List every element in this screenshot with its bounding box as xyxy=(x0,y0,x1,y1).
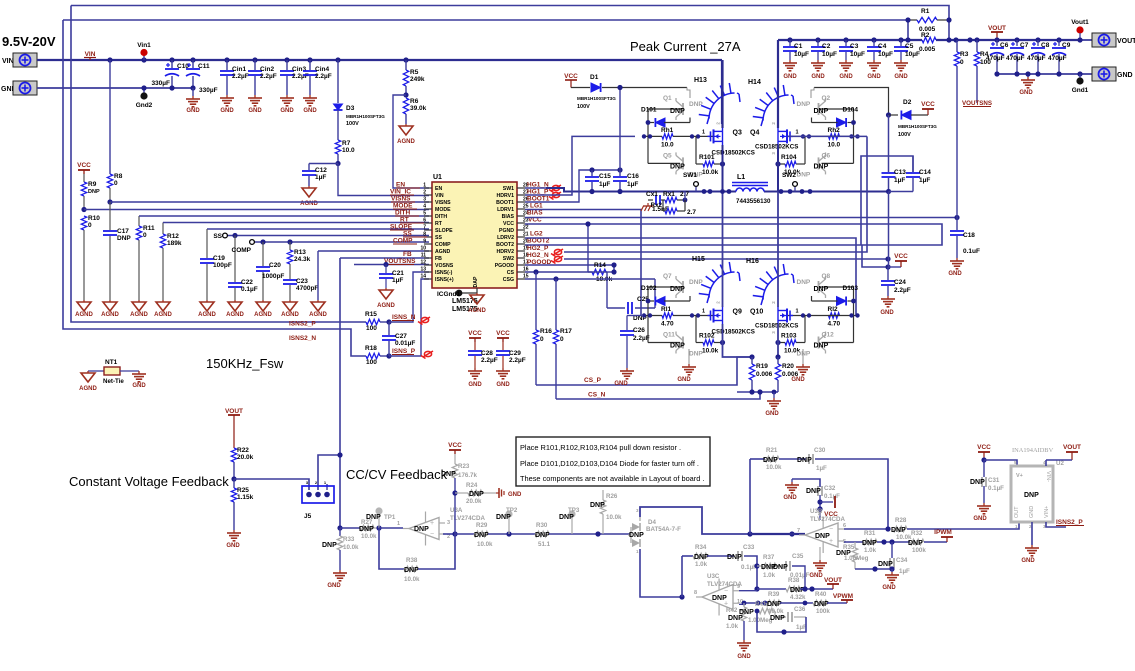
resistor Rh1 10.0 xyxy=(661,127,674,149)
resistor Rx2 2.7 xyxy=(651,200,697,216)
junction xyxy=(872,566,877,571)
svg-text:1: 1 xyxy=(702,309,705,315)
junction xyxy=(452,490,457,495)
svg-text:HDRV2: HDRV2 xyxy=(497,249,515,255)
svg-text:C5: C5 xyxy=(905,43,914,50)
wire to VOUT terminal xyxy=(1080,39,1092,41)
svg-text:FB: FB xyxy=(435,256,442,262)
op-amp U1 LM5175 IC body xyxy=(432,182,517,288)
wire output rail left of R2 xyxy=(778,39,922,41)
svg-text:R103: R103 xyxy=(781,333,797,340)
probe ISNS_N xyxy=(421,317,428,322)
wire VOUT to INA VIN- xyxy=(1046,459,1072,461)
svg-text:1: 1 xyxy=(795,129,798,135)
wire SW1 stub xyxy=(525,187,546,189)
junction xyxy=(337,452,342,457)
AGND at NT1 xyxy=(79,371,97,392)
resistor R28 DNP 10.0k xyxy=(891,517,912,541)
resistor R103 10.0k xyxy=(778,333,805,355)
svg-text:DNP: DNP xyxy=(970,479,985,486)
svg-text:OUT: OUT xyxy=(1014,506,1020,518)
capacitor C30 DNP 1uF xyxy=(797,447,827,472)
junction xyxy=(789,531,794,536)
svg-text:C6: C6 xyxy=(1000,42,1009,49)
wire U3B noninv to R31 xyxy=(844,541,863,543)
svg-text:GND: GND xyxy=(882,585,896,591)
net label SLOPE xyxy=(390,224,414,231)
wire R104 vertical xyxy=(804,136,806,164)
svg-text:BAT54A-7-F: BAT54A-7-F xyxy=(646,526,681,533)
svg-text:13: 13 xyxy=(420,267,426,273)
svg-text:BIAS: BIAS xyxy=(527,210,543,217)
svg-text:DNP: DNP xyxy=(117,235,131,242)
svg-text:Q5: Q5 xyxy=(663,152,672,159)
resistor R26 DNP vertical xyxy=(590,490,622,534)
svg-text:0: 0 xyxy=(114,180,118,187)
wire VIN rail xyxy=(37,59,722,61)
wire R1 left drop xyxy=(907,20,909,40)
wire ISNS2_P sense bus top xyxy=(63,19,908,21)
transistor Q4 CSD18502KCS xyxy=(750,122,798,155)
wire BOOT2 to C14 top xyxy=(525,156,913,245)
junction xyxy=(905,37,910,42)
svg-text:10.0k: 10.0k xyxy=(766,464,782,471)
svg-text:CS: CS xyxy=(507,270,515,276)
ground below C34 xyxy=(882,569,899,591)
svg-text:MBR1H100SFT3G: MBR1H100SFT3G xyxy=(577,96,616,101)
svg-text:L1: L1 xyxy=(737,174,745,181)
svg-text:Q4: Q4 xyxy=(750,129,759,136)
svg-text:J5: J5 xyxy=(304,513,312,520)
svg-text:H13: H13 xyxy=(694,77,707,84)
capacitor C16 1uF xyxy=(613,170,639,192)
ground at C32 xyxy=(783,479,799,501)
capacitor C9 470uF xyxy=(1048,40,1071,74)
svg-text:EN: EN xyxy=(435,186,442,192)
capacitor C34 DNP 1uF xyxy=(878,542,910,575)
svg-text:U3A: U3A xyxy=(450,507,463,514)
svg-text:TP3: TP3 xyxy=(568,507,580,514)
junction xyxy=(788,189,793,194)
capacitor Cin1 2.2uF xyxy=(220,60,249,95)
junction xyxy=(403,92,408,97)
svg-text:C17: C17 xyxy=(117,228,129,235)
junction xyxy=(754,563,759,568)
svg-text:10: 10 xyxy=(420,246,426,252)
svg-text:470µF: 470µF xyxy=(1027,55,1046,62)
ground below C31 xyxy=(973,503,991,522)
svg-text:1.0k: 1.0k xyxy=(695,561,708,568)
junction xyxy=(946,17,951,22)
svg-text:CS_P: CS_P xyxy=(584,377,602,384)
svg-text:DNP: DNP xyxy=(797,457,812,464)
power flag VCC at R9 xyxy=(78,169,90,171)
resistor R20 0.006 xyxy=(775,357,798,392)
svg-text:−: − xyxy=(829,526,833,533)
wire Q1 base row xyxy=(648,108,683,110)
svg-text:0.006: 0.006 xyxy=(756,371,773,378)
svg-text:R31: R31 xyxy=(864,530,876,537)
junction xyxy=(889,566,894,571)
svg-text:ISNS2_P: ISNS2_P xyxy=(289,321,316,328)
svg-text:Rl1: Rl1 xyxy=(661,306,672,313)
wire Q11 base row xyxy=(648,342,680,344)
svg-text:R25: R25 xyxy=(237,487,249,494)
svg-text:GND: GND xyxy=(783,74,797,80)
svg-text:NT1: NT1 xyxy=(105,359,118,366)
wire SW2 to Q10 drain xyxy=(777,192,779,308)
AGND symbol x=318 xyxy=(309,300,327,318)
wire R40 to VPWM xyxy=(827,602,847,604)
wire Q12 base row xyxy=(822,342,854,344)
svg-text:VOUTSNS: VOUTSNS xyxy=(384,258,416,265)
resistor R27 DNP xyxy=(359,519,379,540)
svg-text:Cx1: Cx1 xyxy=(646,191,658,198)
junction xyxy=(403,57,408,62)
svg-text:AGND: AGND xyxy=(281,312,299,318)
svg-text:DNP: DNP xyxy=(689,101,703,108)
svg-text:R11: R11 xyxy=(143,225,155,232)
junction xyxy=(452,531,457,536)
svg-text:PGND: PGND xyxy=(499,228,514,234)
svg-text:2.7: 2.7 xyxy=(687,209,696,216)
wire feedback loop right xyxy=(418,534,455,569)
svg-text:R13: R13 xyxy=(294,249,306,256)
junction xyxy=(885,256,890,261)
svg-text:ISNS(+): ISNS(+) xyxy=(435,277,454,283)
ground below U3B xyxy=(809,547,827,579)
svg-text:DNP: DNP xyxy=(469,491,484,498)
wire VOUT rail to Q4 drain xyxy=(777,40,779,128)
svg-text:Place D101,D102,D103,D104 Diod: Place D101,D102,D103,D104 Diode for fast… xyxy=(520,459,699,468)
svg-text:DNP: DNP xyxy=(366,514,381,521)
earth ground at snubber xyxy=(647,203,649,206)
svg-text:2: 2 xyxy=(716,301,721,304)
svg-text:COMP: COMP xyxy=(393,238,413,245)
net label EN xyxy=(396,182,420,189)
svg-text:GND: GND xyxy=(809,573,823,579)
svg-text:VCC: VCC xyxy=(564,73,578,80)
AGND below U1 DAP xyxy=(468,293,486,314)
svg-text:DNP: DNP xyxy=(814,163,829,170)
net label SS xyxy=(403,231,427,238)
svg-text:H15: H15 xyxy=(692,256,705,263)
resistor R41 DNP 1.00Meg xyxy=(739,601,775,624)
svg-text:DNP: DNP xyxy=(814,108,829,115)
resistor R4 100 xyxy=(974,40,991,103)
svg-text:C28: C28 xyxy=(481,350,493,357)
wire FB to J5 pin2 xyxy=(318,455,340,490)
wire R34 loop vertical xyxy=(681,556,683,597)
junction xyxy=(232,233,237,238)
resistor R1 0.005 xyxy=(908,8,949,33)
svg-text:VCC: VCC xyxy=(977,444,991,451)
wire C33 to U3C inverting node xyxy=(744,556,757,589)
net label VOUTSNS xyxy=(384,258,416,265)
svg-text:ISNS_P: ISNS_P xyxy=(392,348,416,355)
wire L1 to SW2 node xyxy=(764,191,888,193)
svg-text:VOUT: VOUT xyxy=(824,577,842,584)
junction xyxy=(1014,71,1019,76)
resistor R31 DNP 1.0k xyxy=(862,530,877,554)
transistor Q12 (DNP) xyxy=(797,332,835,358)
wire BOOT1 to C15/C16 top xyxy=(525,170,620,202)
inductor L1 7443556130 xyxy=(732,174,771,205)
svg-text:R15: R15 xyxy=(365,311,377,318)
svg-text:DNP: DNP xyxy=(496,514,511,521)
transistor Q8 (DNP) xyxy=(797,273,831,298)
heatsink H16 fan xyxy=(763,274,789,300)
ground below C26 xyxy=(614,368,634,387)
power flag VCC at U3B xyxy=(820,496,838,518)
svg-text:U2: U2 xyxy=(1056,460,1064,467)
resistor R38 DNP 4.32k xyxy=(786,577,806,601)
probe ISNS_P xyxy=(424,351,431,356)
test point SW2 xyxy=(782,172,797,192)
svg-text:D101: D101 xyxy=(641,107,657,114)
svg-text:100: 100 xyxy=(366,359,377,366)
wire R31 to R32 xyxy=(877,541,910,543)
svg-text:AGND: AGND xyxy=(101,312,119,318)
terminal GND out xyxy=(1092,67,1133,81)
svg-text:DNP: DNP xyxy=(629,532,644,539)
junction xyxy=(800,189,805,194)
svg-text:470µF: 470µF xyxy=(986,55,1005,62)
test point Vout1 xyxy=(1071,19,1089,40)
svg-text:AGND: AGND xyxy=(468,308,486,314)
svg-text:150KHz_Fsw: 150KHz_Fsw xyxy=(206,356,284,371)
svg-text:10.0: 10.0 xyxy=(342,147,355,154)
wire to R34 xyxy=(682,555,693,557)
svg-text:7: 7 xyxy=(423,225,426,231)
junction xyxy=(648,313,652,317)
svg-text:CSD18502KCS: CSD18502KCS xyxy=(755,143,798,150)
resistor R2 0.005 xyxy=(919,32,936,53)
svg-text:1µF: 1µF xyxy=(899,568,910,575)
wire to U3A output xyxy=(379,527,403,529)
svg-text:C8: C8 xyxy=(1041,42,1050,49)
svg-text:DITH: DITH xyxy=(395,210,410,217)
wire ISNS2_N sense bus top xyxy=(71,6,949,41)
svg-text:176.7k: 176.7k xyxy=(458,472,477,479)
svg-text:R3: R3 xyxy=(960,51,969,58)
ground below C24 xyxy=(880,296,895,316)
transistor Q11 (DNP) xyxy=(663,332,703,358)
svg-text:GND: GND xyxy=(765,411,779,417)
wire SS row xyxy=(225,235,429,237)
svg-text:DNP: DNP xyxy=(712,595,727,602)
svg-text:0.1µF: 0.1µF xyxy=(988,485,1004,492)
capacitor C32 DNP 0.1uF xyxy=(806,485,840,500)
svg-text:GND: GND xyxy=(783,495,797,501)
svg-text:INA194AIDBV: INA194AIDBV xyxy=(1012,447,1054,454)
svg-text:10.0k: 10.0k xyxy=(702,348,719,355)
svg-text:C36: C36 xyxy=(794,606,806,613)
net label HG2_P xyxy=(527,245,549,252)
junction xyxy=(994,37,999,42)
svg-text:R8: R8 xyxy=(114,173,123,180)
svg-text:DNP: DNP xyxy=(404,567,419,574)
svg-text:1: 1 xyxy=(636,549,639,554)
wire VOUTSNS row xyxy=(354,264,429,266)
svg-text:AGND: AGND xyxy=(226,312,244,318)
ground below C11 xyxy=(186,88,200,114)
svg-text:AGND: AGND xyxy=(435,249,451,255)
svg-text:0: 0 xyxy=(960,59,964,66)
svg-text:C22: C22 xyxy=(241,279,253,286)
power flag VOUT at R38 xyxy=(824,577,842,589)
wire ISNS_P to U1 pin14 xyxy=(389,279,429,356)
svg-text:2.2µF: 2.2µF xyxy=(260,73,277,80)
svg-text:12: 12 xyxy=(420,260,426,266)
svg-text:SLOPE: SLOPE xyxy=(435,228,453,234)
resistor R3 0 xyxy=(954,40,968,218)
wire C34 bottom row xyxy=(855,568,892,570)
wire Q2 collector to D2 xyxy=(814,88,889,116)
svg-text:4: 4 xyxy=(423,204,426,210)
resistor R39 DNP 10.0k xyxy=(766,591,784,615)
svg-text:20.0k: 20.0k xyxy=(237,454,254,461)
transistor Q5 (DNP) xyxy=(663,152,703,178)
wire CS_N xyxy=(556,392,760,399)
junction xyxy=(851,120,856,125)
svg-text:R23: R23 xyxy=(458,463,470,470)
capacitor C11 330uF xyxy=(186,60,218,94)
svg-text:C18: C18 xyxy=(963,232,975,239)
net label VISNS xyxy=(391,196,415,203)
capacitor C13 1uF xyxy=(882,169,907,192)
svg-text:C26: C26 xyxy=(633,327,645,334)
svg-text:GND: GND xyxy=(303,108,317,114)
wire C35 to R38b node xyxy=(792,566,805,589)
resistor R19 0.006 xyxy=(749,357,772,392)
junction xyxy=(1056,37,1061,42)
svg-text:DNP: DNP xyxy=(414,526,429,533)
AGND below R6 xyxy=(397,124,415,145)
wire gate row a xyxy=(829,135,859,137)
svg-text:DNP: DNP xyxy=(814,601,829,608)
capacitor C1 10uF xyxy=(783,40,809,60)
wire Q6 base row xyxy=(822,162,854,164)
svg-text:VCC: VCC xyxy=(496,330,510,337)
ground below C2 xyxy=(811,60,825,80)
svg-text:DNP: DNP xyxy=(88,189,100,195)
resistor R38 DNP feedback xyxy=(404,557,420,583)
wire to R38 4.32k xyxy=(757,588,786,590)
svg-text:R40: R40 xyxy=(815,591,827,598)
svg-text:2.2µF: 2.2µF xyxy=(481,357,498,364)
svg-text:VCC: VCC xyxy=(921,101,935,108)
svg-text:AGND: AGND xyxy=(309,312,327,318)
svg-text:10µF: 10µF xyxy=(794,51,809,58)
junction xyxy=(886,112,891,117)
wire D2 node down to C13 xyxy=(888,115,890,172)
svg-text:VOUTSNS: VOUTSNS xyxy=(962,100,992,107)
svg-text:AGND: AGND xyxy=(75,312,93,318)
svg-text:C12: C12 xyxy=(315,167,327,174)
junction xyxy=(383,262,388,267)
junction xyxy=(553,276,558,281)
wire Q9 source to R19 xyxy=(723,324,753,357)
junction xyxy=(787,37,792,42)
net label ISNS2_P at INA xyxy=(1056,519,1084,526)
wire down to VCC node xyxy=(888,192,890,268)
ground below R33 xyxy=(327,570,347,589)
resistor Rx1 2.7 xyxy=(661,191,689,203)
svg-text:39.0k: 39.0k xyxy=(410,105,427,112)
sideways ground at R24 xyxy=(496,488,522,498)
svg-text:1.0k: 1.0k xyxy=(864,547,877,554)
junction xyxy=(885,526,890,531)
junction xyxy=(815,37,820,42)
wire U3C bottom loop xyxy=(757,611,806,632)
svg-text:C34: C34 xyxy=(896,557,908,564)
resistor R6 39.0k xyxy=(403,98,426,124)
probe HG1_P xyxy=(552,192,559,197)
svg-text:2: 2 xyxy=(771,122,776,125)
wire output gnd row xyxy=(997,73,1092,75)
wire U3C inv input xyxy=(739,590,757,592)
wire SW1 node to L1 xyxy=(546,188,736,192)
svg-text:GND: GND xyxy=(1019,90,1033,96)
wire gate row b xyxy=(786,315,840,317)
svg-text:Q12: Q12 xyxy=(822,332,835,339)
svg-text:VCC: VCC xyxy=(448,442,462,449)
wire gate row a xyxy=(643,135,662,137)
capacitor C18 0.1uF xyxy=(950,218,980,259)
wire to U3B output xyxy=(750,533,805,535)
svg-text:DNP: DNP xyxy=(359,526,374,533)
svg-text:100V: 100V xyxy=(898,132,911,138)
svg-text:DNP: DNP xyxy=(806,488,821,495)
svg-text:R21: R21 xyxy=(766,447,778,454)
wire PGOOD row xyxy=(525,265,614,272)
svg-text:1: 1 xyxy=(702,129,705,135)
svg-text:8: 8 xyxy=(694,590,697,596)
resistor R24 DNP 20.0k xyxy=(455,482,496,505)
capacitor C3 10uF xyxy=(839,40,865,60)
svg-text:R26: R26 xyxy=(606,493,618,500)
junction xyxy=(817,499,822,504)
wire Q1 collector stub xyxy=(687,88,690,99)
svg-text:1: 1 xyxy=(423,183,426,189)
AGND symbol x=263 xyxy=(254,300,272,318)
capacitor C20 1000pF xyxy=(256,242,284,300)
capacitor C10 330uF xyxy=(151,60,189,88)
svg-text:10.0: 10.0 xyxy=(661,141,674,148)
test point SS xyxy=(213,233,227,240)
wire R21 row left xyxy=(750,458,765,460)
svg-text:0.1uF: 0.1uF xyxy=(963,248,980,255)
junction xyxy=(169,57,174,62)
probe HG2_P xyxy=(554,249,561,254)
svg-text:4700pF: 4700pF xyxy=(296,285,318,292)
svg-text:PGOOD: PGOOD xyxy=(495,263,515,269)
wire D4 top to U3B output row xyxy=(640,507,750,534)
junction xyxy=(335,57,340,62)
svg-text:TP1: TP1 xyxy=(384,514,396,521)
svg-text:1000pF: 1000pF xyxy=(262,273,284,280)
wire Q7 base row xyxy=(648,286,683,288)
junction xyxy=(889,539,894,544)
svg-text:R5: R5 xyxy=(410,69,419,76)
junction xyxy=(1035,37,1040,42)
AGND below C12 xyxy=(300,186,318,207)
wire HDRV1 to Q3 gate row xyxy=(546,136,635,195)
svg-text:Gnd1: Gnd1 xyxy=(1072,87,1089,94)
junction xyxy=(190,57,195,62)
svg-text:COMP: COMP xyxy=(232,247,252,254)
